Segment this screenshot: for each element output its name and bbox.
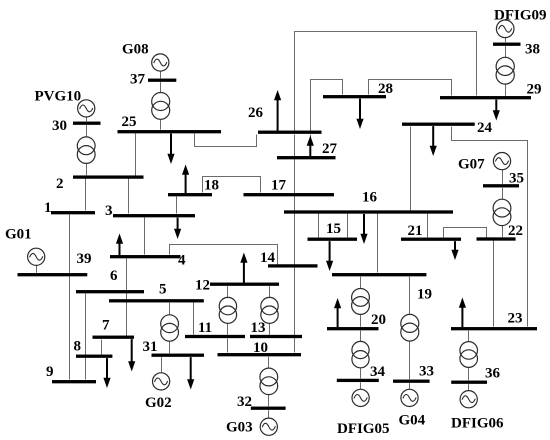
load arrow bus 28 <box>356 99 363 129</box>
load arrow bus 4 (up) <box>116 234 123 256</box>
bus 12 busbar <box>210 283 279 286</box>
svg-text:13: 13 <box>251 320 266 336</box>
wire stem T10-32 lower <box>268 395 270 407</box>
bus 33 busbar <box>393 380 430 383</box>
transformer T2-30 <box>77 137 95 164</box>
load arrow bus 16 <box>360 214 367 244</box>
wire line 16-19 <box>377 214 379 273</box>
bus 24 busbar <box>402 123 475 126</box>
bus 30 busbar <box>73 122 101 125</box>
wire line 28-29 <box>369 80 452 96</box>
wire line 17-18 <box>203 177 261 193</box>
generator DFIG05 <box>352 382 369 406</box>
bus 1 busbar <box>51 211 95 214</box>
load arrow bus 29 <box>493 100 500 121</box>
bus 31 busbar <box>152 354 205 357</box>
bus 28 busbar <box>323 95 386 98</box>
wire stem T19-20 upper <box>360 277 362 289</box>
bus 35 busbar <box>483 184 519 187</box>
wire line 16-24 <box>410 127 412 211</box>
svg-text:18: 18 <box>204 178 219 194</box>
wire line 26-27-17-16-14-13-10 <box>294 135 296 353</box>
load arrow bus 21 <box>451 241 458 260</box>
load arrow bus 8 <box>103 358 110 388</box>
wire line 15-16 right <box>347 214 349 238</box>
wire line 1-39-9 <box>69 215 71 380</box>
wire line 21-22 <box>444 228 487 238</box>
transformer T19-33 <box>401 314 419 341</box>
wire line 3-4 <box>144 218 146 255</box>
bus 23 busbar <box>451 327 537 330</box>
wire line 11-10 <box>227 339 229 353</box>
generator G07 <box>493 153 510 184</box>
bus 14 busbar <box>268 264 318 267</box>
svg-text:G04: G04 <box>399 413 426 429</box>
bus 29 busbar <box>440 96 531 99</box>
bus 4 busbar <box>110 255 181 258</box>
wire stem T19-20 lower <box>360 314 362 326</box>
load arrow bus 26 (up) <box>274 90 281 131</box>
bus 34 busbar <box>337 379 379 382</box>
svg-text:4: 4 <box>178 253 186 269</box>
transformer T12-11 <box>219 297 236 323</box>
wire line 4-14 <box>170 245 278 265</box>
load arrow bus 3 <box>174 218 181 239</box>
svg-text:26: 26 <box>248 105 264 121</box>
bus 37 busbar <box>148 79 176 82</box>
svg-text:30: 30 <box>52 118 67 134</box>
wire stem T25-37 upper <box>160 82 162 92</box>
svg-text:DFIG06: DFIG06 <box>451 416 504 432</box>
wire line 26-27 stub <box>310 135 312 156</box>
svg-text:DFIG05: DFIG05 <box>337 421 390 437</box>
bus 2 busbar <box>73 175 144 178</box>
wire stem T20-34 lower <box>360 368 362 379</box>
wire stem T23-36 upper <box>468 331 470 342</box>
bus 10 busbar <box>218 353 302 356</box>
load arrow bus 12 (up) <box>240 253 247 283</box>
transformer T12-13 <box>261 297 278 323</box>
wire stem T2-30 lower <box>86 163 88 175</box>
svg-text:32: 32 <box>237 394 252 410</box>
bus 17 busbar <box>244 193 335 196</box>
svg-text:16: 16 <box>362 190 378 206</box>
bus 13 busbar <box>250 335 302 338</box>
svg-text:7: 7 <box>102 318 110 334</box>
load arrow bus 31 <box>187 357 194 389</box>
svg-text:G03: G03 <box>226 420 253 436</box>
wire line 1-2 <box>85 179 87 211</box>
wire line 16-21 <box>427 214 429 238</box>
svg-text:22: 22 <box>508 223 523 239</box>
wire stem T22-35 upper <box>502 188 504 200</box>
bus 20 busbar <box>327 327 379 330</box>
wire stem T2-30 upper <box>86 125 88 137</box>
generator DFIG09 <box>496 20 514 42</box>
bus 5 busbar <box>109 299 204 302</box>
bus 7 busbar <box>93 336 135 339</box>
bus 39 busbar <box>18 273 88 276</box>
wire line 3-18 <box>176 197 178 214</box>
wire stem T29-38 upper <box>505 46 507 57</box>
svg-text:39: 39 <box>77 251 92 267</box>
svg-text:31: 31 <box>143 339 158 355</box>
wire line 25-2 <box>135 134 137 176</box>
load arrow bus 7 <box>128 339 135 371</box>
load arrow bus 18 (up) <box>182 165 189 194</box>
bus 38 busbar <box>493 43 521 46</box>
svg-text:G01: G01 <box>5 227 32 243</box>
svg-text:19: 19 <box>417 287 432 303</box>
wire stem T12-11 lower <box>227 323 229 334</box>
bus 36 busbar <box>451 381 487 384</box>
load arrow bus 15 <box>326 241 333 271</box>
generator G04 <box>401 383 418 406</box>
svg-text:27: 27 <box>322 141 338 157</box>
svg-text:23: 23 <box>508 311 523 327</box>
svg-text:36: 36 <box>485 366 501 382</box>
wire line 23-24 <box>452 127 528 327</box>
svg-text:G02: G02 <box>145 395 172 411</box>
bus 27 busbar <box>277 156 336 159</box>
wire stem T10-32 upper <box>268 357 270 369</box>
svg-text:25: 25 <box>122 114 137 130</box>
bus 25 busbar <box>118 130 222 133</box>
wire line 15-16 left <box>318 214 320 238</box>
wire stem T25-37 lower <box>160 119 162 130</box>
wire stem T12-13 upper <box>269 286 271 297</box>
bus 21 busbar <box>401 238 461 241</box>
wire line 2-3 <box>128 179 130 214</box>
wire line 5-11 <box>193 303 195 335</box>
transformer T22-35 <box>493 199 511 225</box>
svg-text:29: 29 <box>527 82 542 98</box>
svg-text:38: 38 <box>525 42 540 58</box>
transformer T23-36 <box>460 342 478 368</box>
wire stem T29-38 lower <box>505 84 507 96</box>
wire stem T22-35 lower <box>502 226 504 238</box>
wire stem T19-33 lower <box>409 341 411 379</box>
svg-text:10: 10 <box>253 340 268 356</box>
wire stem T5-31 lower <box>169 341 171 353</box>
bus 32 busbar <box>251 407 286 410</box>
svg-text:33: 33 <box>419 364 434 380</box>
wire line 26-28 <box>311 80 343 131</box>
wire line 22-23 <box>493 241 495 327</box>
svg-text:24: 24 <box>477 120 493 136</box>
svg-text:21: 21 <box>408 223 423 239</box>
load arrow bus 20 (up) <box>334 298 341 327</box>
generator DFIG06 <box>460 384 477 408</box>
generator G02 <box>153 357 170 390</box>
bus 15 busbar <box>308 238 358 241</box>
svg-text:9: 9 <box>46 364 54 380</box>
svg-text:DFIG09: DFIG09 <box>494 7 547 23</box>
svg-text:G08: G08 <box>122 42 149 58</box>
svg-text:14: 14 <box>260 250 276 266</box>
bus 16 busbar <box>284 210 453 213</box>
svg-text:35: 35 <box>509 171 524 187</box>
transformer T19-20 <box>352 289 370 315</box>
wire stem T12-11 upper <box>227 286 229 297</box>
svg-text:PVG10: PVG10 <box>35 89 82 105</box>
svg-text:2: 2 <box>56 176 64 192</box>
svg-text:37: 37 <box>130 72 146 88</box>
svg-text:G07: G07 <box>458 157 485 173</box>
transformer T25-37 <box>152 93 170 120</box>
bus 11 busbar <box>185 335 245 338</box>
generator G08 <box>152 54 169 78</box>
wire line 25-26 <box>195 134 257 147</box>
load arrow bus 24 <box>430 126 437 156</box>
wire stem T5-31 upper <box>169 303 171 315</box>
generator PVG10 <box>78 100 95 122</box>
transformer T20-34 <box>352 341 369 367</box>
bus 18 busbar <box>168 193 212 196</box>
bus 26 busbar <box>258 131 322 134</box>
svg-text:34: 34 <box>370 364 386 380</box>
transformer T29-38 <box>496 57 514 84</box>
bus 22 busbar <box>477 237 516 240</box>
svg-text:5: 5 <box>159 282 167 298</box>
svg-text:6: 6 <box>110 268 118 284</box>
bus 8 busbar <box>76 355 112 358</box>
wire stem T19-33 upper <box>409 277 411 315</box>
generator G01 <box>28 248 45 273</box>
wire line 6-8-9 <box>85 294 87 380</box>
generator G03 <box>260 410 277 435</box>
svg-text:28: 28 <box>378 81 393 97</box>
wire line 7-8 <box>101 340 103 355</box>
svg-text:15: 15 <box>326 221 341 237</box>
svg-text:11: 11 <box>198 320 212 336</box>
wire stem T23-36 lower <box>468 367 470 380</box>
bus 19 busbar <box>332 273 426 276</box>
wire stem T12-13 lower <box>269 323 271 334</box>
bus 3 busbar <box>113 214 195 217</box>
load arrow bus 25 <box>167 134 174 164</box>
transformer T5-31 <box>161 315 179 341</box>
svg-text:8: 8 <box>74 339 82 355</box>
svg-text:3: 3 <box>105 203 113 219</box>
svg-text:20: 20 <box>371 312 386 328</box>
wire stem T20-34 upper <box>360 331 362 342</box>
transformer T10-32 <box>260 368 278 395</box>
svg-text:12: 12 <box>195 278 210 294</box>
bus 9 busbar <box>52 380 96 383</box>
load arrow bus 27 (up) <box>307 136 314 157</box>
load arrow bus 23 (up) <box>459 298 466 328</box>
svg-text:17: 17 <box>271 178 287 194</box>
svg-text:1: 1 <box>44 200 52 216</box>
wire line 26-29 <box>295 32 477 131</box>
wire line 4-5-6-7 <box>126 259 128 336</box>
bus 6 busbar <box>76 290 144 293</box>
